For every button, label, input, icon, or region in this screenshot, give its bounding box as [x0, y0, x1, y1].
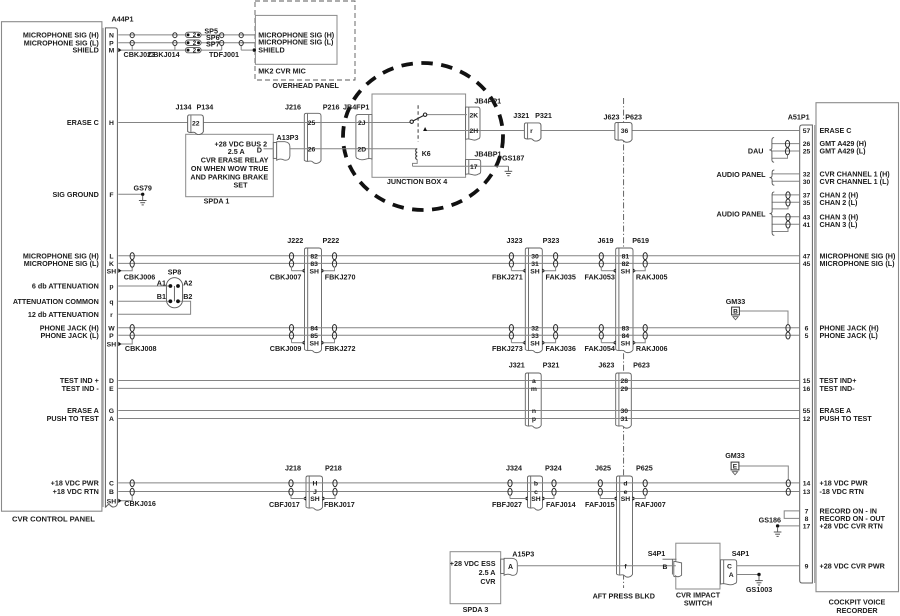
- svg-text:25: 25: [308, 120, 316, 127]
- svg-text:n: n: [532, 408, 536, 415]
- svg-text:41: 41: [803, 222, 811, 229]
- svg-text:K6: K6: [422, 151, 431, 158]
- svg-text:J623: J623: [598, 361, 614, 370]
- svg-text:12: 12: [803, 416, 811, 423]
- svg-text:OVERHEAD PANEL: OVERHEAD PANEL: [272, 81, 339, 90]
- svg-text:P321: P321: [535, 111, 552, 120]
- svg-text:H: H: [109, 120, 114, 127]
- svg-text:E: E: [733, 464, 738, 471]
- svg-text:A1: A1: [157, 278, 166, 287]
- svg-text:P625: P625: [636, 464, 653, 473]
- svg-text:SPDA 1: SPDA 1: [204, 196, 230, 205]
- svg-text:RAFJ007: RAFJ007: [635, 500, 666, 509]
- svg-text:P623: P623: [625, 112, 642, 121]
- svg-text:83: 83: [310, 261, 318, 268]
- svg-text:CBKJ008: CBKJ008: [125, 344, 157, 353]
- svg-text:ERASE C: ERASE C: [67, 118, 99, 127]
- svg-text:17: 17: [803, 524, 811, 531]
- svg-text:J216: J216: [285, 102, 301, 111]
- svg-text:47: 47: [803, 253, 811, 260]
- svg-text:B: B: [109, 489, 114, 496]
- svg-text:FBKJ270: FBKJ270: [325, 272, 356, 281]
- svg-text:CVR CONTROL PANEL: CVR CONTROL PANEL: [12, 515, 95, 524]
- svg-text:35: 35: [803, 200, 811, 207]
- svg-text:SH: SH: [107, 342, 117, 349]
- svg-text:A44P1: A44P1: [112, 15, 134, 24]
- svg-text:17: 17: [470, 164, 478, 171]
- svg-text:RAKJ005: RAKJ005: [636, 272, 668, 281]
- svg-text:B1: B1: [157, 292, 166, 301]
- svg-text:m: m: [531, 386, 537, 393]
- svg-text:P324: P324: [545, 464, 562, 473]
- svg-text:FAFJ014: FAFJ014: [546, 500, 576, 509]
- svg-text:SH: SH: [107, 498, 117, 505]
- svg-text:GM33: GM33: [726, 297, 746, 306]
- svg-text:P134: P134: [197, 102, 214, 111]
- svg-text:S4P1: S4P1: [648, 549, 666, 558]
- svg-text:SH: SH: [107, 268, 117, 275]
- svg-text:CBKJ006: CBKJ006: [124, 272, 156, 281]
- svg-text:A: A: [729, 572, 734, 579]
- svg-text:FBKJ271: FBKJ271: [492, 272, 523, 281]
- svg-text:12 db ATTENUATION: 12 db ATTENUATION: [28, 310, 99, 319]
- svg-text:FAKJ035: FAKJ035: [546, 272, 576, 281]
- svg-text:2H: 2H: [469, 128, 478, 135]
- svg-text:+28 VDC CVR RTN: +28 VDC CVR RTN: [820, 522, 883, 531]
- svg-text:JB4BP1: JB4BP1: [474, 150, 501, 159]
- svg-text:2D: 2D: [357, 147, 366, 154]
- svg-text:+18 VDC RTN: +18 VDC RTN: [53, 487, 99, 496]
- svg-text:31: 31: [621, 416, 629, 423]
- svg-text:A51P1: A51P1: [788, 113, 810, 122]
- svg-text:84: 84: [622, 333, 630, 340]
- svg-text:GMT A429 (L): GMT A429 (L): [820, 147, 867, 156]
- svg-text:PHONE JACK (L): PHONE JACK (L): [820, 331, 879, 340]
- svg-text:13: 13: [803, 489, 811, 496]
- svg-text:22: 22: [192, 120, 200, 127]
- svg-text:CBFJ017: CBFJ017: [269, 500, 300, 509]
- svg-text:r: r: [110, 312, 113, 319]
- svg-text:AUDIO PANEL: AUDIO PANEL: [717, 210, 767, 219]
- svg-text:J323: J323: [507, 236, 523, 245]
- svg-text:43: 43: [803, 214, 811, 221]
- svg-text:A: A: [109, 416, 114, 423]
- svg-text:15: 15: [803, 378, 811, 385]
- svg-text:7: 7: [805, 509, 809, 516]
- svg-text:16: 16: [803, 386, 811, 393]
- svg-text:K: K: [109, 261, 114, 268]
- svg-text:CVR: CVR: [480, 577, 496, 586]
- svg-text:GS187: GS187: [502, 154, 524, 163]
- svg-text:P: P: [109, 40, 114, 47]
- svg-text:G: G: [109, 408, 114, 415]
- svg-text:SH: SH: [530, 268, 540, 275]
- svg-text:31: 31: [531, 261, 539, 268]
- svg-text:SP8: SP8: [168, 268, 182, 277]
- svg-text:J619: J619: [598, 236, 614, 245]
- svg-text:SH: SH: [621, 340, 631, 347]
- svg-text:A2: A2: [183, 278, 192, 287]
- svg-text:FAFJ015: FAFJ015: [585, 500, 615, 509]
- svg-text:83: 83: [622, 325, 630, 332]
- svg-text:H: H: [313, 481, 318, 488]
- svg-text:FBFJ027: FBFJ027: [492, 500, 522, 509]
- svg-text:+28 VDC ESS: +28 VDC ESS: [450, 559, 496, 568]
- svg-text:ATTENUATION COMMON: ATTENUATION COMMON: [13, 297, 99, 306]
- svg-text:J625: J625: [595, 464, 611, 473]
- svg-text:33: 33: [531, 333, 539, 340]
- svg-text:FBKJ017: FBKJ017: [324, 500, 355, 509]
- svg-text:6 db ATTENUATION: 6 db ATTENUATION: [32, 282, 99, 291]
- svg-text:TEST IND -: TEST IND -: [62, 384, 100, 393]
- svg-text:CBKJ014: CBKJ014: [148, 50, 180, 59]
- svg-text:JUNCTION BOX 4: JUNCTION BOX 4: [387, 177, 447, 186]
- svg-text:30: 30: [621, 408, 629, 415]
- svg-text:TEST IND-: TEST IND-: [820, 384, 856, 393]
- svg-text:25: 25: [803, 149, 811, 156]
- svg-text:SH: SH: [621, 496, 631, 503]
- svg-text:55: 55: [803, 408, 811, 415]
- svg-text:b: b: [534, 481, 538, 488]
- svg-text:AND PARKING BRAKE: AND PARKING BRAKE: [190, 172, 268, 181]
- svg-text:CVR CHANNEL 1 (L): CVR CHANNEL 1 (L): [820, 177, 890, 186]
- svg-text:FBKJ273: FBKJ273: [492, 344, 523, 353]
- svg-text:P619: P619: [632, 236, 649, 245]
- svg-text:SH: SH: [309, 268, 319, 275]
- svg-text:AUDIO PANEL: AUDIO PANEL: [717, 170, 767, 179]
- svg-text:28: 28: [621, 378, 629, 385]
- svg-text:A: A: [508, 564, 513, 571]
- svg-text:S4P1: S4P1: [732, 549, 750, 558]
- svg-text:84: 84: [310, 325, 318, 332]
- svg-text:GS1003: GS1003: [746, 585, 772, 594]
- svg-text:MK2 CVR MIC: MK2 CVR MIC: [258, 66, 306, 75]
- svg-text:26: 26: [803, 141, 811, 148]
- svg-text:P218: P218: [325, 464, 342, 473]
- svg-text:30: 30: [803, 179, 811, 186]
- svg-text:P321: P321: [543, 361, 560, 370]
- svg-text:85: 85: [310, 333, 318, 340]
- svg-text:82: 82: [622, 261, 630, 268]
- svg-text:8: 8: [805, 516, 809, 523]
- svg-text:SH: SH: [309, 340, 319, 347]
- svg-text:SH: SH: [310, 496, 320, 503]
- svg-text:J222: J222: [287, 236, 303, 245]
- svg-text:M: M: [109, 48, 115, 55]
- svg-text:p: p: [532, 416, 536, 423]
- svg-text:GM33: GM33: [725, 451, 745, 460]
- svg-text:J134: J134: [176, 102, 192, 111]
- svg-text:45: 45: [803, 261, 811, 268]
- svg-text:J623: J623: [604, 112, 620, 121]
- svg-text:GS79: GS79: [134, 183, 152, 192]
- svg-text:C: C: [727, 563, 732, 570]
- svg-text:J321: J321: [509, 361, 525, 370]
- svg-text:CBKJ009: CBKJ009: [270, 344, 302, 353]
- svg-text:r: r: [530, 128, 533, 135]
- svg-text:26: 26: [308, 147, 316, 154]
- svg-text:D: D: [257, 145, 262, 154]
- svg-text:P222: P222: [323, 236, 340, 245]
- svg-text:2.5 A: 2.5 A: [479, 568, 496, 577]
- svg-text:ERASE C: ERASE C: [820, 126, 852, 135]
- svg-text:TDFJ001: TDFJ001: [209, 50, 239, 59]
- svg-text:J324: J324: [506, 464, 522, 473]
- svg-text:E: E: [109, 386, 114, 393]
- svg-text:L: L: [109, 253, 113, 260]
- svg-text:A15P3: A15P3: [512, 550, 534, 559]
- svg-text:P323: P323: [543, 236, 560, 245]
- svg-text:N: N: [109, 33, 114, 40]
- svg-text:SHIELD: SHIELD: [258, 46, 284, 55]
- svg-text:SH: SH: [531, 496, 541, 503]
- svg-text:P623: P623: [633, 361, 650, 370]
- svg-text:SPDA 3: SPDA 3: [463, 605, 489, 614]
- svg-text:FAKJ036: FAKJ036: [546, 344, 576, 353]
- svg-text:29: 29: [621, 386, 629, 393]
- svg-text:AFT PRESS BLKD: AFT PRESS BLKD: [593, 592, 655, 601]
- svg-text:2J: 2J: [358, 120, 366, 127]
- svg-text:J: J: [313, 489, 317, 496]
- svg-text:p: p: [109, 284, 113, 291]
- svg-text:PUSH TO TEST: PUSH TO TEST: [47, 414, 100, 423]
- svg-text:2K: 2K: [469, 113, 478, 120]
- svg-text:P216: P216: [323, 102, 340, 111]
- svg-text:JB4PP1: JB4PP1: [474, 96, 501, 105]
- svg-text:MICROPHONE SIG (L): MICROPHONE SIG (L): [24, 259, 100, 268]
- svg-text:CBKJ016: CBKJ016: [124, 499, 156, 508]
- svg-text:RAKJ006: RAKJ006: [636, 344, 668, 353]
- svg-text:SWITCH: SWITCH: [684, 599, 712, 608]
- svg-text:PHONE JACK (L): PHONE JACK (L): [40, 331, 99, 340]
- svg-text:W: W: [108, 325, 115, 332]
- svg-text:37: 37: [803, 193, 811, 200]
- svg-text:J218: J218: [285, 464, 301, 473]
- svg-text:FAKJ053: FAKJ053: [585, 272, 615, 281]
- svg-text:14: 14: [803, 481, 811, 488]
- svg-text:-18 VDC RTN: -18 VDC RTN: [820, 487, 864, 496]
- svg-text:CHAN 3 (L): CHAN 3 (L): [820, 220, 859, 229]
- svg-text:FBKJ272: FBKJ272: [325, 344, 356, 353]
- svg-text:82: 82: [310, 253, 318, 260]
- svg-text:57: 57: [803, 128, 811, 135]
- svg-text:MICROPHONE SIG (L): MICROPHONE SIG (L): [820, 259, 896, 268]
- svg-text:SH: SH: [530, 340, 540, 347]
- svg-text:SHIELD: SHIELD: [72, 46, 98, 55]
- svg-text:9: 9: [805, 563, 809, 570]
- svg-text:SP7: SP7: [206, 39, 220, 48]
- svg-text:P: P: [109, 333, 114, 340]
- svg-text:B2: B2: [183, 292, 192, 301]
- svg-text:B: B: [663, 564, 668, 571]
- svg-text:5: 5: [805, 333, 809, 340]
- svg-text:RECORDER: RECORDER: [836, 606, 878, 615]
- svg-text:PUSH TO TEST: PUSH TO TEST: [820, 414, 873, 423]
- svg-text:CBKJ007: CBKJ007: [270, 272, 302, 281]
- svg-text:J321: J321: [513, 111, 529, 120]
- svg-text:JB4FP1: JB4FP1: [343, 102, 369, 111]
- svg-text:d: d: [623, 481, 627, 488]
- svg-text:6: 6: [805, 325, 809, 332]
- svg-text:CHAN 2 (L): CHAN 2 (L): [820, 198, 859, 207]
- svg-text:+28 VDC CVR PWR: +28 VDC CVR PWR: [820, 561, 886, 570]
- svg-text:q: q: [109, 299, 113, 306]
- svg-text:A13P3: A13P3: [277, 133, 299, 142]
- svg-text:32: 32: [531, 325, 539, 332]
- svg-text:32: 32: [803, 172, 811, 179]
- svg-text:a: a: [532, 378, 536, 385]
- svg-text:D: D: [109, 378, 114, 385]
- svg-text:B: B: [733, 309, 738, 316]
- svg-text:FAKJ054: FAKJ054: [585, 344, 615, 353]
- svg-text:81: 81: [622, 253, 630, 260]
- svg-text:DAU: DAU: [748, 147, 764, 156]
- svg-text:F: F: [109, 192, 113, 199]
- svg-text:c: c: [534, 489, 538, 496]
- svg-text:GS186: GS186: [759, 516, 781, 525]
- svg-text:30: 30: [531, 253, 539, 260]
- svg-text:SIG GROUND: SIG GROUND: [52, 190, 98, 199]
- svg-text:e: e: [624, 489, 628, 496]
- svg-text:36: 36: [621, 128, 629, 135]
- svg-text:C: C: [109, 481, 114, 488]
- svg-text:SET: SET: [234, 180, 249, 189]
- svg-text:SH: SH: [621, 268, 631, 275]
